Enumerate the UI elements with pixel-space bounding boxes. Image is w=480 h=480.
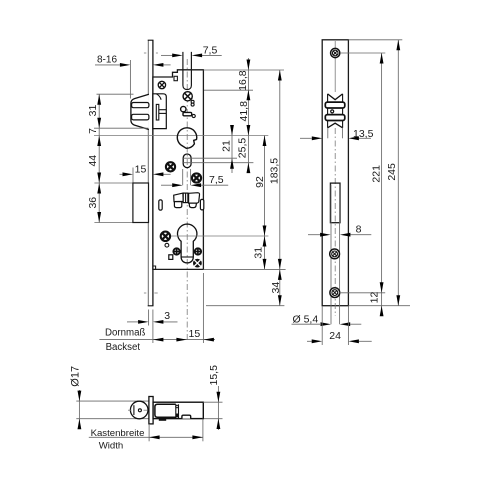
dim diam 5,4 xyxy=(292,323,321,325)
bottom tab xyxy=(182,415,191,418)
screw S6 (black) xyxy=(193,259,202,268)
svg-text:25,5: 25,5 xyxy=(236,138,248,159)
backset dim line xyxy=(99,339,215,341)
svg-text:7: 7 xyxy=(87,128,99,134)
deadbolt housing box xyxy=(133,183,149,223)
left side slot xyxy=(159,200,162,210)
svg-text:15,5: 15,5 xyxy=(208,365,220,386)
latch front: top V xyxy=(328,94,343,100)
svg-text:Width: Width xyxy=(99,440,124,451)
divider channel xyxy=(175,404,177,418)
dim column 16,8 / 41,8 / 25,5 xyxy=(247,58,249,170)
cross screw right xyxy=(195,248,201,254)
svg-text:24: 24 xyxy=(329,330,341,342)
svg-text:92: 92 xyxy=(254,176,266,188)
middle fixing screw xyxy=(330,249,340,259)
svg-text:36: 36 xyxy=(87,197,99,209)
svg-text:34: 34 xyxy=(270,282,282,294)
change lever block A xyxy=(174,193,184,202)
lock case outline xyxy=(153,70,204,270)
svg-text:Kastenbreite: Kastenbreite xyxy=(91,428,145,439)
handle follower knob (outside faceplate) xyxy=(131,94,149,129)
cylinder axis centerline xyxy=(170,235,268,237)
svg-text:15: 15 xyxy=(189,328,201,340)
knob slot 1 xyxy=(132,103,149,108)
svg-text:Backset: Backset xyxy=(106,342,141,353)
latch bottom V xyxy=(328,123,343,128)
svg-text:41,8: 41,8 xyxy=(238,101,250,122)
horizontal centerline through follower xyxy=(94,135,268,137)
right view refs xyxy=(348,39,402,41)
svg-text:3: 3 xyxy=(164,310,170,322)
latch roller bar 1 xyxy=(325,102,345,108)
vertical centerline (latch/follower/cylinder axis) xyxy=(186,59,188,342)
svg-text:7,5: 7,5 xyxy=(209,174,224,186)
case bottom-left notch xyxy=(153,266,156,269)
svg-text:13,5: 13,5 xyxy=(353,128,374,140)
svg-text:7,5: 7,5 xyxy=(203,45,218,57)
change lever mid bar xyxy=(183,193,188,203)
follower hub (inside case) xyxy=(153,94,166,129)
small rect detail xyxy=(169,255,173,260)
svg-text:Ø17: Ø17 xyxy=(70,366,82,387)
faceplate slot cutout xyxy=(330,183,340,223)
faceplate centerline xyxy=(334,41,336,92)
right side tab xyxy=(200,199,203,210)
slab inner pocket xyxy=(155,404,176,417)
faceplate screw axis center-marks xyxy=(144,52,146,54)
Kastenbreite dim xyxy=(148,424,150,441)
mounting tick xyxy=(159,419,166,421)
svg-text:15: 15 xyxy=(135,163,147,175)
oval slot below follower xyxy=(183,154,191,168)
faceplate strip (edge view) xyxy=(148,41,153,306)
screw S2 xyxy=(183,92,192,101)
dim 13,5 xyxy=(327,128,329,139)
svg-text:183,5: 183,5 xyxy=(268,158,280,184)
faceplate front outline xyxy=(322,40,348,306)
change lever block B xyxy=(189,193,200,203)
dim column 221 / 12 xyxy=(381,53,383,313)
svg-text:221: 221 xyxy=(370,165,382,183)
dim 15,5 refs xyxy=(203,401,222,403)
left dim column refs xyxy=(97,93,134,95)
dim column 31/7/44/36 xyxy=(98,94,100,222)
screw S5 xyxy=(161,232,170,241)
svg-text:245: 245 xyxy=(386,163,398,181)
svg-text:16,8: 16,8 xyxy=(237,70,249,91)
dim column 21 xyxy=(231,127,233,173)
diam 17 ref lines xyxy=(76,400,149,402)
follower nut (circle with notches) xyxy=(177,128,196,149)
dim column 92 / 31 xyxy=(264,136,266,270)
ext line knob face xyxy=(129,60,131,99)
dim 8 xyxy=(330,185,332,325)
cross screw left xyxy=(173,248,179,254)
svg-text:12: 12 xyxy=(369,292,381,304)
svg-text:44: 44 xyxy=(87,155,99,167)
screw S4 xyxy=(192,173,201,182)
dim 24 xyxy=(321,307,323,346)
top fixing screw xyxy=(331,48,340,57)
svg-text:Dornmaß: Dornmaß xyxy=(105,328,145,339)
dim column 245 xyxy=(397,40,399,306)
svg-text:8-16: 8-16 xyxy=(97,54,117,65)
cylinder end circle xyxy=(130,401,148,419)
screw S3 xyxy=(166,162,175,171)
knob slot 2 xyxy=(132,114,149,120)
right refs of left view xyxy=(203,69,284,71)
svg-text:31: 31 xyxy=(87,105,99,117)
svg-text:21: 21 xyxy=(220,140,232,152)
latch guide clip xyxy=(174,76,177,80)
spring lever detail xyxy=(181,106,186,111)
svg-text:Ø 5,4: Ø 5,4 xyxy=(293,314,319,326)
bottom fixing screw xyxy=(330,288,340,298)
case slab (section) xyxy=(153,402,203,418)
latch slot (vertical elongated hole) xyxy=(183,52,192,90)
dim column diam 17 xyxy=(78,390,80,428)
pin hole xyxy=(165,243,169,247)
latch pivot dot xyxy=(331,110,334,113)
screw S1 xyxy=(158,81,165,88)
dim column 183,5 / 34 xyxy=(279,70,281,306)
svg-text:31: 31 xyxy=(252,247,264,259)
faceplate bar (section) xyxy=(149,397,153,424)
profile cylinder hole xyxy=(177,224,196,263)
dim column 15,5 xyxy=(217,386,219,430)
svg-text:8: 8 xyxy=(356,223,362,235)
latch roller bar 2 xyxy=(325,115,345,121)
